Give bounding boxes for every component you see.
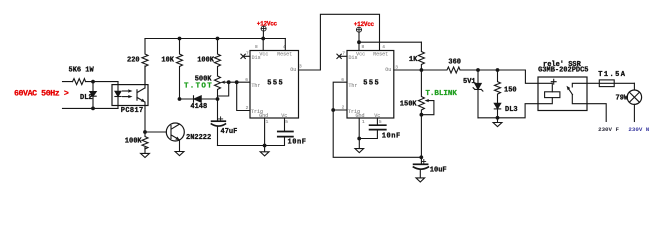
svg-text:Vcc: Vcc [259, 51, 268, 57]
svg-text:100K: 100K [197, 57, 215, 65]
wire top rail Vcc [145, 38, 285, 40]
junction trig U2 [331, 108, 335, 112]
PC817 internal phototransistor [137, 85, 145, 109]
wire wiper to Thr [229, 81, 250, 83]
no-connect X pin7 U2 [337, 54, 347, 58]
op-amp timer U2 555 [347, 51, 394, 119]
ground under 100K [141, 148, 150, 158]
resistor 360 [421, 67, 478, 73]
svg-text:5K6 1W: 5K6 1W [69, 66, 95, 74]
svg-text:10nF: 10nF [382, 132, 401, 140]
capacitor 10uF [414, 163, 428, 165]
PC817 internal LED [117, 82, 119, 109]
junction DL2 top [91, 80, 95, 84]
svg-text:230V F: 230V F [598, 126, 619, 133]
svg-text:230V N: 230V N [628, 126, 649, 133]
ground right [493, 118, 502, 127]
svg-text:220: 220 [127, 57, 140, 65]
wire input top [63, 81, 119, 83]
wire to relay [478, 70, 538, 83]
capacitor 47uF [212, 120, 226, 122]
junction DL2 bottom [91, 107, 95, 111]
wire Gnd pin1 U1 [264, 118, 266, 146]
wire PC817 collector to 220 [144, 66, 146, 85]
resistor 100K (timing) [215, 39, 221, 77]
wire trig branch [237, 82, 250, 110]
wire PC817 emitter down [144, 108, 146, 132]
svg-text:Thr: Thr [348, 83, 357, 89]
no-connect X pin7 U1 [241, 54, 250, 58]
svg-text:1: 1 [362, 119, 365, 125]
resistor 5K6 1W [73, 79, 86, 85]
PC817 light arrows [123, 90, 131, 92]
resistor 220 [142, 39, 148, 85]
relay coil [538, 83, 552, 92]
zener 5V1 [477, 70, 479, 83]
wire Vcc pin8 U2 [358, 42, 360, 50]
ground under 10uF [416, 170, 425, 183]
wire U1 out to U2 reset [299, 14, 380, 70]
resistor 1K [418, 42, 424, 70]
junction base node [143, 130, 147, 134]
svg-text:60VAC 50Hz >: 60VAC 50Hz > [14, 89, 69, 98]
svg-text:150: 150 [504, 86, 517, 94]
junction wiper [227, 80, 231, 84]
svg-text:T.BLINK: T.BLINK [425, 90, 457, 98]
junction pot wiper return [420, 113, 424, 117]
svg-text:+12Vcc: +12Vcc [354, 21, 375, 28]
svg-text:T1.5A: T1.5A [598, 71, 626, 79]
wire U2 out stub [394, 69, 422, 71]
wire Gnd pin1 U2 [358, 118, 360, 139]
capacitor 10nF U2 [376, 118, 378, 125]
svg-text:DL3: DL3 [505, 106, 518, 114]
svg-text:8: 8 [255, 44, 258, 50]
svg-text:6: 6 [245, 77, 248, 83]
wire bottom rail right [478, 104, 538, 118]
junction 4148 cathode [178, 97, 182, 101]
wire Reset pin4 U1 [284, 39, 286, 51]
wire cap to gnd node [218, 145, 265, 147]
svg-text:8: 8 [362, 44, 365, 50]
junction rail U2 [357, 40, 361, 44]
wire base to 2N2222 [145, 131, 166, 133]
svg-text:T.TOT: T.TOT [184, 82, 213, 90]
ground under 2N2222 emitter [175, 152, 184, 156]
svg-text:1: 1 [266, 119, 269, 125]
svg-text:4148: 4148 [190, 103, 207, 111]
svg-text:Reset: Reset [373, 51, 388, 57]
power +12Vcc U2 [357, 27, 362, 32]
svg-text:7: 7 [342, 51, 345, 57]
svg-text:555: 555 [363, 79, 380, 87]
svg-text:5: 5 [379, 119, 382, 125]
svg-text:2N2222: 2N2222 [186, 134, 211, 142]
svg-text:Ou: Ou [290, 67, 296, 73]
diode DL3 [494, 103, 500, 108]
wire relay NO contact out [587, 104, 606, 122]
svg-text:PC817: PC817 [121, 107, 144, 115]
lamp 79W [633, 83, 635, 90]
svg-text:DL2: DL2 [80, 94, 93, 102]
svg-text:100K: 100K [125, 138, 143, 146]
svg-text:555: 555 [267, 79, 284, 87]
junction gnd node 1 [263, 144, 267, 148]
ground U2 [355, 139, 364, 153]
svg-text:Dis: Dis [349, 55, 358, 61]
junction out U2 [420, 68, 424, 72]
svg-text:Gnd: Gnd [259, 113, 268, 119]
svg-text:10uF: 10uF [430, 167, 447, 175]
junction trig branch [235, 80, 239, 84]
opto-coupler PC817 [112, 85, 148, 106]
junction gnd U2 [357, 137, 361, 141]
junction zener [476, 68, 480, 72]
svg-text:360: 360 [448, 59, 461, 67]
ground main 1 [260, 145, 269, 156]
svg-text:1K: 1K [409, 56, 418, 64]
svg-text:7: 7 [246, 51, 249, 57]
svg-text:10K: 10K [161, 57, 174, 65]
junction 4148 anode [216, 97, 220, 101]
junction rail-Vcc1 [261, 37, 265, 41]
wire wiper return branch [218, 82, 229, 96]
svg-text:Gnd: Gnd [356, 113, 365, 119]
resistor 100K (base pulldown) [142, 132, 148, 149]
svg-text:2: 2 [246, 105, 249, 111]
svg-text:+12Vcc: +12Vcc [257, 20, 278, 27]
junction rail-100K [216, 37, 220, 41]
wire Vcc pin8 U1 [262, 39, 264, 51]
junction 150 [496, 68, 500, 72]
svg-text:10nF: 10nF [288, 139, 307, 147]
svg-text:3: 3 [299, 64, 302, 70]
junction rail-10K [178, 37, 182, 41]
transistor Q1 2N2222 [166, 123, 184, 141]
svg-text:79W: 79W [616, 95, 629, 103]
diode DL2 [92, 82, 94, 109]
resistor 10K [177, 39, 183, 100]
svg-text:4: 4 [382, 44, 385, 50]
potentiometer 150K T.BLINK [418, 70, 424, 164]
junction bottom rail [496, 116, 500, 120]
svg-text:Dis: Dis [252, 55, 261, 61]
junction cap 10uF top [419, 155, 423, 159]
svg-text:Ou: Ou [385, 67, 391, 73]
svg-text:47uF: 47uF [221, 128, 238, 136]
svg-text:Reset: Reset [277, 51, 292, 57]
power +12Vcc U1 [261, 26, 266, 31]
svg-text:Thr: Thr [251, 83, 260, 89]
svg-text:5: 5 [285, 119, 288, 125]
diode 4148 [180, 98, 218, 100]
op-amp timer U1 555 [250, 51, 299, 119]
relay SSR G3MB-202PDC5 [538, 77, 587, 111]
relay switch [572, 83, 587, 87]
fuse T1.5A [587, 82, 634, 84]
svg-text:G3MB-202PDC5: G3MB-202PDC5 [538, 67, 588, 75]
capacitor 10nF U1 [284, 118, 286, 131]
resistor 150 [495, 70, 501, 103]
wire input bottom [63, 107, 119, 109]
wire Thr-Trig net U2 [333, 82, 421, 157]
wire rail U2 [359, 41, 421, 43]
svg-text:5V1: 5V1 [463, 78, 476, 86]
svg-text:150K: 150K [400, 100, 418, 108]
potentiometer 500K T.TOT [215, 76, 221, 121]
